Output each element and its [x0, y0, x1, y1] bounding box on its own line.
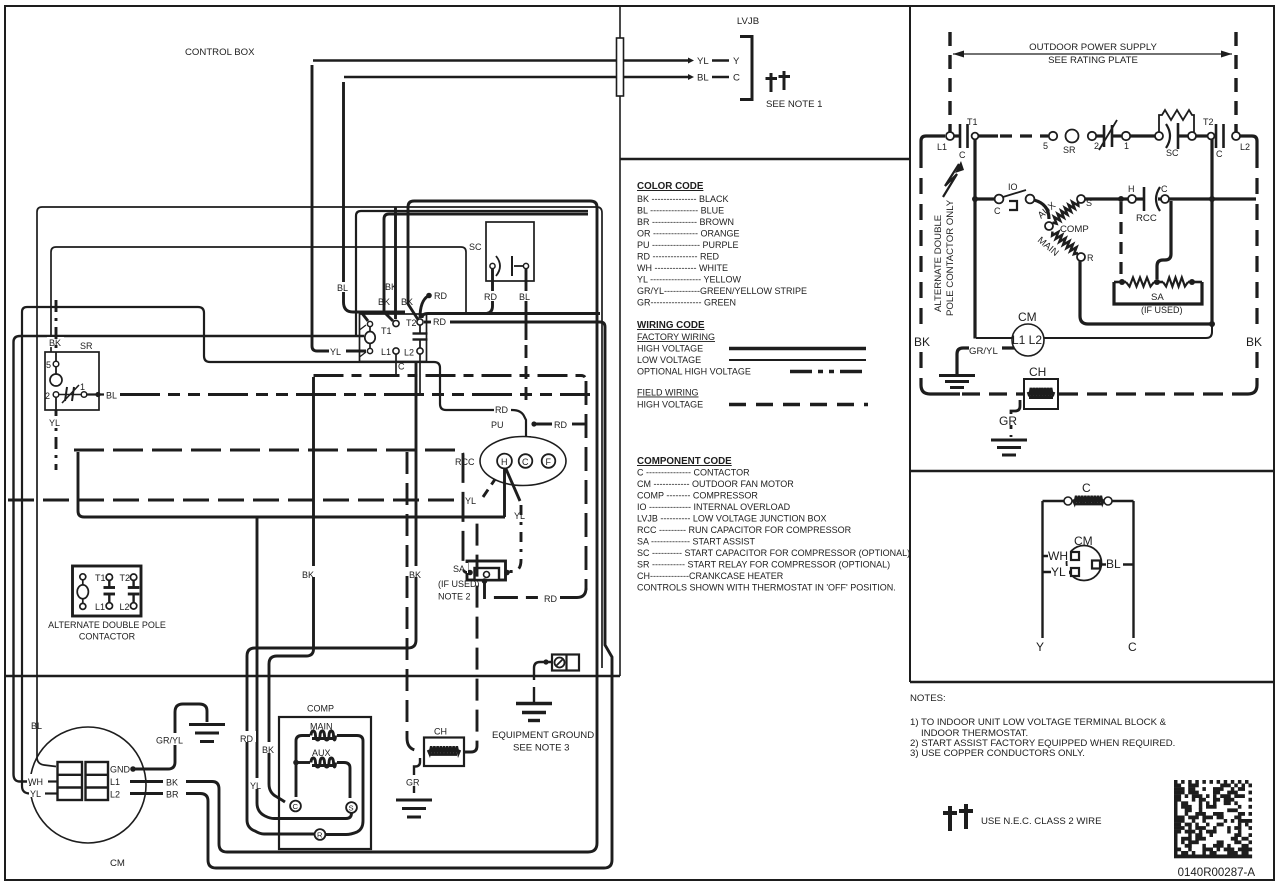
svg-text:FACTORY WIRING: FACTORY WIRING: [637, 332, 715, 342]
terminal 1: [1122, 132, 1130, 140]
CH coil: [428, 746, 460, 754]
compressor COMP common terminal: [1045, 222, 1053, 230]
svg-text:CH: CH: [1029, 365, 1046, 379]
svg-text:R: R: [1087, 253, 1094, 263]
svg-text:CONTROLS SHOWN WITH THERMOSTAT: CONTROLS SHOWN WITH THERMOSTAT IN 'OFF' …: [637, 583, 896, 593]
wire diagonal into coil top: [361, 312, 368, 321]
wire RD: T2 row to SC and right riser: [422, 314, 600, 319]
svg-text:C: C: [1082, 481, 1091, 495]
svg-text:CM ------------ OUTDOOR FAN MO: CM ------------ OUTDOOR FAN MOTOR: [637, 479, 794, 489]
terminal BL: [1092, 561, 1100, 569]
alt L2 terminal: [130, 603, 136, 609]
svg-text:BK: BK: [914, 335, 930, 349]
COMP MAIN winding: [1052, 232, 1078, 255]
SR contact plates with slash: [1103, 125, 1106, 147]
svg-text:RD: RD: [240, 734, 253, 744]
wire BL dash-dot long: [120, 393, 590, 396]
wire YL riser to COMP S: [257, 517, 352, 819]
wire H to low voltage bus: [503, 468, 506, 517]
svg-text:CH: CH: [434, 727, 447, 737]
svg-text:BK: BK: [409, 570, 421, 580]
IO overload hook: [1009, 201, 1017, 210]
svg-text:1: 1: [80, 382, 85, 392]
terminal L2: [417, 348, 423, 354]
equipment ground symbol: [516, 702, 552, 705]
svg-text:NOTE 2: NOTE 2: [438, 592, 471, 602]
control box bottom divider wire: [5, 675, 620, 678]
svg-text:WH: WH: [1048, 549, 1068, 563]
wire L1 to L2 bottom: [395, 354, 397, 376]
legend line low voltage: [729, 359, 866, 361]
SA inner box: [475, 568, 500, 580]
wire S to H: [1085, 197, 1128, 200]
wire C to right rail: [1169, 197, 1256, 200]
svg-text:Y: Y: [1036, 640, 1044, 654]
wire BK short vertical into T1: [377, 296, 393, 306]
COMP terminal S: [346, 802, 357, 813]
svg-text:HIGH VOLTAGE: HIGH VOLTAGE: [637, 344, 703, 354]
svg-text:AUX: AUX: [312, 748, 331, 758]
svg-text:BL: BL: [106, 391, 117, 401]
coil terminal left: [1064, 497, 1072, 505]
svg-text:GR/YL: GR/YL: [156, 736, 183, 746]
wire RD from T2 up right (dot): [420, 296, 428, 318]
wire dashed YL row (to RCC H): [8, 499, 464, 502]
terminal T1: [972, 133, 979, 140]
alt T2-L2 capacitor: [132, 580, 134, 586]
wire BR loop: CM L2 - bottom - right riser: [186, 322, 612, 868]
compressor COMP box: [279, 717, 371, 849]
terminal 2: [1088, 132, 1096, 140]
top wire with contactor coil C: [1043, 500, 1065, 502]
svg-text:C: C: [522, 457, 529, 467]
CM terminal block right column: [86, 762, 109, 800]
wire BK vertical into T1: [356, 211, 588, 336]
svg-text:1: 1: [1124, 141, 1129, 151]
svg-text:COMP: COMP: [307, 704, 334, 714]
label BL: [1106, 558, 1123, 569]
svg-text:5: 5: [46, 360, 51, 370]
fan motor CM circle (low voltage): [1067, 546, 1102, 581]
wire 1 to SC: [1130, 134, 1155, 137]
svg-text:LOW VOLTAGE: LOW VOLTAGE: [637, 355, 701, 365]
left rail BK dashed: [919, 152, 922, 330]
svg-text:YL: YL: [697, 56, 709, 67]
LVJB bracket: [740, 37, 752, 100]
svg-text:C: C: [994, 206, 1001, 216]
MAIN winding coil: [311, 731, 336, 740]
wire SR riser dash-dot: [55, 300, 58, 352]
svg-text:YL: YL: [49, 418, 60, 428]
svg-text:(IF USED): (IF USED): [1141, 305, 1183, 315]
right schematic box left edge: [909, 6, 911, 682]
svg-text:5: 5: [1043, 141, 1048, 151]
C branch to SA: [1157, 201, 1171, 279]
svg-text:SA: SA: [1151, 292, 1164, 303]
CM terminal block left column: [58, 762, 83, 800]
svg-text:CONTROL BOX: CONTROL BOX: [185, 47, 255, 58]
svg-text:Y: Y: [733, 56, 740, 67]
legend line field high voltage: [729, 403, 868, 407]
contactor capacitor plates: [419, 325, 421, 334]
svg-text:L1: L1: [95, 602, 105, 612]
field wiring power supply dashed drop L1: [948, 32, 951, 132]
label YL: [1051, 566, 1069, 577]
svg-text:NOTES:: NOTES:: [910, 693, 946, 704]
alternate contactor box: [73, 566, 142, 616]
contactor contact C (T2 side): [1215, 124, 1218, 148]
svg-text:YL: YL: [330, 347, 341, 357]
RCC terminal F: [542, 454, 556, 468]
svg-text:F: F: [546, 457, 552, 467]
ground symbol (GR/YL): [189, 723, 225, 726]
svg-text:SC ---------- START CAPACITOR: SC ---------- START CAPACITOR FOR COMPRE…: [637, 548, 910, 558]
svg-text:T1: T1: [967, 117, 978, 127]
svg-text:OR --------------- ORANGE: OR --------------- ORANGE: [637, 229, 739, 239]
terminal link C: [712, 76, 729, 79]
svg-text:IO: IO: [1008, 182, 1018, 192]
svg-text:LVJB: LVJB: [737, 16, 759, 27]
ground symbol (GR/YL): [939, 374, 975, 377]
wire BL into terminal block: [37, 757, 56, 767]
svg-text:BK --------------- BLACK: BK --------------- BLACK: [637, 194, 728, 204]
internal overload IO terminal C: [995, 195, 1004, 204]
main L1 wire segment: [921, 136, 945, 152]
svg-text:L2: L2: [1240, 142, 1250, 152]
run capacitor RCC outline: [480, 437, 566, 486]
label GR: [999, 414, 1020, 425]
svg-text:WH: WH: [28, 777, 43, 787]
terminal L1: [946, 132, 954, 140]
svg-text:CONTACTOR: CONTACTOR: [79, 632, 136, 642]
svg-text:RCC --------- RUN CAPACITOR FO: RCC --------- RUN CAPACITOR FOR COMPRESS…: [637, 525, 852, 535]
wire dashed to CH left: [407, 452, 424, 752]
svg-text:BL: BL: [31, 721, 42, 731]
svg-text:WH -------------- WHITE: WH -------------- WHITE: [637, 263, 728, 273]
wire diagonal into T1: [384, 312, 393, 321]
label WH: [27, 774, 50, 785]
wire GND to ground GR/YL: [130, 766, 136, 772]
coil terminal right: [1104, 497, 1112, 505]
contactor coil C winding: [1073, 496, 1104, 504]
svg-text:YL: YL: [250, 781, 261, 791]
label WH: [1048, 550, 1070, 561]
H dashed branch to SA: [1118, 196, 1124, 202]
svg-text:C: C: [1216, 149, 1223, 159]
wire to IO: [975, 197, 994, 200]
svg-text:RCC: RCC: [455, 457, 475, 467]
svg-text:COMP: COMP: [1060, 224, 1089, 235]
terminal L2: [1232, 132, 1240, 140]
svg-text:2: 2: [45, 391, 50, 401]
wire RD bottom dash-dot to SA: [485, 583, 587, 598]
label BK (SR riser): [47, 337, 64, 347]
svg-text:BL: BL: [337, 283, 348, 293]
label BK (riser): [301, 566, 318, 577]
wire IO to COMP common: [1034, 200, 1049, 219]
svg-text:L2: L2: [404, 348, 414, 358]
start assist SA resistors: [1119, 279, 1125, 285]
svg-text:T2: T2: [1203, 117, 1214, 127]
svg-text:L1: L1: [381, 347, 391, 357]
RCC H terminal: [1128, 195, 1136, 203]
run capacitor RCC plates: [1136, 197, 1143, 200]
start capacitor SC box: [486, 222, 534, 281]
outdoor fan motor CM circle: [1012, 324, 1044, 356]
svg-text:SEE NOTE 1: SEE NOTE 1: [766, 99, 823, 110]
contactor contact C (T1 side): [959, 124, 962, 148]
svg-text:RD --------------- RED: RD --------------- RED: [637, 252, 719, 262]
wire YL from LVJB down to contactor coil: [312, 65, 366, 351]
terminal T2: [417, 319, 423, 325]
right rail BK dashed: [1255, 152, 1258, 330]
legend line high voltage: [729, 347, 866, 351]
panel divider (control box right edge): [619, 6, 621, 676]
svg-text:H: H: [1128, 184, 1135, 194]
crankcase heater CH box: [1024, 379, 1058, 409]
svg-text:GND: GND: [110, 765, 131, 775]
svg-text:S: S: [349, 804, 354, 813]
alt T2 terminal: [130, 574, 136, 580]
alt L1 terminal: [106, 603, 112, 609]
terminal WH: [1071, 552, 1079, 560]
svg-text:FIELD WIRING: FIELD WIRING: [637, 388, 699, 398]
right schematic divider: [910, 470, 1274, 473]
CH ground lead GR: [1011, 400, 1020, 417]
terminal T1: [393, 320, 399, 326]
svg-text:BL ---------------- BLUE: BL ---------------- BLUE: [637, 206, 724, 216]
svg-text:RD: RD: [433, 317, 446, 327]
svg-text:SEE RATING PLATE: SEE RATING PLATE: [1048, 55, 1138, 66]
wire BL from LVJB down to contactor T1: [344, 82, 406, 312]
IO terminal right: [1026, 195, 1035, 204]
svg-text:T1: T1: [95, 573, 106, 583]
start relay SR coil circle: [1066, 130, 1079, 143]
R branch to bottom: [1080, 261, 1212, 324]
svg-text:BK: BK: [302, 570, 314, 580]
COMP AUX winding: [1053, 202, 1079, 224]
RCC terminal H: [497, 454, 512, 469]
SR terminal 5: [53, 361, 59, 367]
svg-text:RD: RD: [554, 420, 567, 430]
wire low voltage bus: [78, 452, 505, 517]
T1 branch vertical: [973, 139, 976, 339]
wire BK loop: CM L1 - bottom - right riser - top - T1: [186, 201, 597, 852]
svg-text:GR/YL: GR/YL: [969, 346, 998, 357]
terminal link Y: [712, 59, 729, 62]
wire SC left lead RD: [485, 269, 493, 314]
svg-text:T1: T1: [381, 326, 392, 336]
wire YL diagonal from H: [506, 469, 520, 501]
SR terminal 1: [81, 392, 87, 398]
wire Y leg: [1041, 501, 1043, 638]
svg-text:RCC: RCC: [1136, 213, 1157, 224]
svg-text:C: C: [733, 73, 740, 84]
wire C leg: [1132, 501, 1134, 638]
svg-text:IO -------------- INTERNAL OVE: IO -------------- INTERNAL OVERLOAD: [637, 502, 791, 512]
terminal YL: [1071, 568, 1079, 576]
field wiring power supply dashed drop L2: [1234, 32, 1237, 132]
svg-text:SA: SA: [453, 564, 465, 574]
junction dot at T2 branch: [1209, 196, 1215, 202]
svg-text:RD: RD: [544, 594, 557, 604]
svg-text:SA ------------- START ASSIST: SA ------------- START ASSIST: [637, 537, 755, 547]
wire SC right lead BL (dashed): [525, 269, 528, 340]
label GR: [405, 775, 425, 786]
wire dashed from bus into SA left: [74, 450, 467, 573]
svg-text:CM: CM: [1018, 310, 1037, 324]
main L2 wire segment: [1240, 136, 1257, 152]
svg-text:SR: SR: [80, 341, 93, 351]
wire BK vertical into T2: [394, 207, 397, 319]
svg-text:YL ----------------- YELLOW: YL ----------------- YELLOW: [637, 275, 741, 285]
SA indicator circle: [484, 572, 490, 578]
svg-text:POLE CONTACTOR ONLY: POLE CONTACTOR ONLY: [945, 199, 956, 316]
svg-text:GR/YL------------GREEN/YELLOW: GR/YL------------GREEN/YELLOW STRIPE: [637, 286, 807, 296]
junction dot IO branch: [972, 196, 978, 202]
svg-text:BR --------------- BROWN: BR --------------- BROWN: [637, 217, 734, 227]
svg-text:H: H: [501, 457, 508, 467]
bottom dashed rail into CH: [962, 392, 1024, 395]
svg-text:YL: YL: [465, 496, 476, 506]
svg-text:BR: BR: [166, 790, 179, 800]
label BK (lower): [261, 742, 278, 753]
COMP S terminal: [1077, 195, 1085, 203]
ground symbol (CH GR): [396, 799, 432, 802]
svg-text:L1: L1: [937, 142, 947, 152]
svg-text:C: C: [293, 802, 299, 811]
wire WH riser and coil feed: [14, 336, 365, 782]
svg-text:T2: T2: [120, 573, 131, 583]
svg-text:L2: L2: [120, 602, 130, 612]
svg-text:BL: BL: [1106, 557, 1121, 571]
T2 branch vertical: [1210, 139, 1213, 324]
MAIN leads: [296, 736, 310, 798]
svg-text:EQUIPMENT GROUND: EQUIPMENT GROUND: [492, 730, 594, 741]
LVJB wall pass-through symbol: [617, 38, 624, 96]
svg-text:RD: RD: [495, 405, 508, 415]
outdoor power supply arrow line: [953, 53, 1232, 55]
wire BL from SR terminal 1 (dash-dot): [87, 393, 104, 395]
svg-text:OPTIONAL HIGH VOLTAGE: OPTIONAL HIGH VOLTAGE: [637, 367, 751, 377]
svg-text:SR: SR: [1063, 145, 1076, 155]
wire YL: [1043, 571, 1072, 573]
svg-text:C: C: [1161, 184, 1168, 194]
wire BL to LVJB (horizontal): [344, 76, 688, 79]
wire T1 to relay contact 5 (partial dash): [978, 134, 998, 137]
COMP terminal C: [290, 801, 301, 812]
wire thin loop A: CM BL riser to top to right riser: [37, 207, 602, 757]
svg-text:OUTDOOR POWER SUPPLY: OUTDOOR POWER SUPPLY: [1029, 42, 1157, 53]
RCC C terminal: [1161, 195, 1169, 203]
SC capacitor straight plate: [1177, 123, 1180, 149]
contactor C box: [360, 314, 427, 362]
wire SC to T2: [1196, 134, 1207, 137]
SR terminal 2: [53, 392, 59, 398]
terminal 5: [1049, 132, 1057, 140]
RCC terminal C: [519, 454, 533, 468]
svg-text:T2: T2: [406, 318, 417, 328]
svg-text:RD: RD: [434, 291, 447, 301]
start relay SR box: [45, 352, 99, 410]
svg-text:RD: RD: [484, 292, 497, 302]
contactor coil terminals: [367, 321, 372, 326]
wire RD dashed right riser: [585, 381, 588, 590]
wire YL dash-dot to SA right: [509, 505, 521, 572]
ground symbol (CH): [991, 439, 1027, 442]
svg-text:YL: YL: [30, 789, 41, 799]
alt T1 terminal: [106, 574, 112, 580]
svg-text:ALTERNATE DOUBLE: ALTERNATE DOUBLE: [933, 215, 944, 312]
svg-text:LVJB ---------- LOW VOLTAGE JU: LVJB ---------- LOW VOLTAGE JUNCTION BOX: [637, 514, 827, 524]
label YL (below SR): [48, 416, 62, 427]
CM wire stubs to labels: [130, 780, 163, 783]
LVJB section divider: [620, 158, 910, 160]
terminal T2: [1208, 133, 1215, 140]
field wiring dagger symbols: [766, 73, 778, 92]
alt T1-L1 capacitor: [108, 580, 110, 586]
svg-text:SC: SC: [469, 242, 482, 252]
svg-text:HIGH VOLTAGE: HIGH VOLTAGE: [637, 400, 703, 410]
SC capacitor curved plate: [1166, 124, 1170, 148]
wire BK/RD riser to COMP R: [247, 362, 416, 834]
svg-text:CM: CM: [1074, 534, 1093, 548]
class 2 wire dagger symbols: [943, 806, 957, 831]
svg-text:GR: GR: [999, 414, 1017, 428]
AUX leads: [296, 761, 310, 764]
legend line optional high voltage: [790, 370, 866, 374]
SA junction dots: [467, 570, 473, 576]
svg-text:C: C: [1128, 640, 1137, 654]
dashed diagonal into H: [483, 472, 500, 497]
svg-text:YL: YL: [1051, 565, 1066, 579]
svg-text:0140R00287-A: 0140R00287-A: [1178, 867, 1256, 879]
svg-text:L1 L2: L1 L2: [1012, 333, 1042, 347]
low voltage schematic box bottom: [910, 681, 1274, 684]
wire thin loop B: [51, 247, 466, 352]
label GR/YL: [155, 733, 191, 745]
fan motor CM circle: [30, 727, 146, 843]
svg-text:WIRING CODE: WIRING CODE: [637, 320, 705, 331]
svg-text:L1: L1: [110, 777, 120, 787]
svg-text:CM: CM: [110, 858, 125, 869]
svg-text:YL: YL: [514, 511, 525, 521]
SC junction left: [1155, 132, 1163, 140]
wire RD tick from RCC right: [533, 423, 552, 426]
label SA: [452, 563, 468, 573]
contactor coil: [365, 332, 375, 344]
SR coil: [55, 366, 57, 375]
svg-text:PU ---------------- PURPLE: PU ---------------- PURPLE: [637, 240, 738, 250]
equipment ground connector symbol: [543, 659, 548, 664]
svg-text:PU: PU: [491, 420, 504, 430]
svg-text:USE N.E.C. CLASS 2 WIRE: USE N.E.C. CLASS 2 WIRE: [981, 816, 1101, 827]
svg-text:SR ----------- START RELAY FOR: SR ----------- START RELAY FOR COMPRESSO…: [637, 560, 890, 570]
svg-text:BL: BL: [519, 292, 530, 302]
wire WH: [1043, 555, 1072, 557]
svg-text:COMPONENT CODE: COMPONENT CODE: [637, 456, 732, 467]
svg-text:COLOR CODE: COLOR CODE: [637, 181, 704, 192]
label YL: [29, 786, 46, 797]
wire GR/YL to ground: [957, 348, 1014, 374]
svg-text:SEE NOTE 3: SEE NOTE 3: [513, 743, 570, 754]
svg-text:R: R: [317, 831, 323, 840]
IO switch blade: [1003, 190, 1026, 197]
SC capacitor symbol: [490, 263, 495, 268]
svg-text:CH-------------CRANKCASE HEATE: CH-------------CRANKCASE HEATER: [637, 571, 784, 581]
wire BK horizontal to compressor riser: [269, 377, 314, 802]
wire YL to LVJB (horizontal): [313, 59, 688, 62]
